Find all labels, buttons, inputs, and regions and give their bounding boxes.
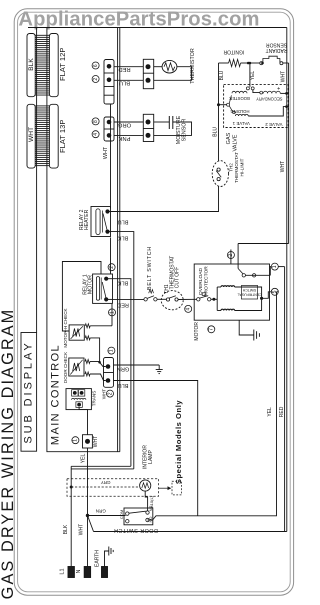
svg-text:BLK: BLK [28, 58, 35, 71]
wire secondary to WHT [285, 92, 288, 95]
svg-text:CUT OFF: CUT OFF [175, 267, 181, 289]
wire trans to WHT pin [79, 407, 87, 434]
svg-text:7: 7 [209, 328, 215, 331]
wire GRN to chassis ground [114, 364, 160, 366]
wire RED [114, 66, 143, 68]
wire BLK relay2 to L1 twin [111, 232, 134, 469]
svg-text:CENTRIFUGAL: CENTRIFUGAL [237, 293, 261, 297]
svg-text:HOLDING: HOLDING [230, 109, 249, 114]
pin number 2 motor [227, 252, 234, 259]
svg-text:MAIN CONTROL: MAIN CONTROL [49, 344, 61, 445]
connector CN2 pins 8,4 [104, 117, 114, 141]
wire WHT to centrifugal common [238, 243, 289, 245]
svg-text:BOOSTER: BOOSTER [229, 96, 249, 101]
svg-text:DOOR SWITCH: DOOR SWITCH [114, 527, 158, 533]
svg-text:TH2: TH2 [229, 163, 234, 172]
wire YEL down to junction [87, 448, 89, 516]
svg-text:RED: RED [279, 406, 285, 417]
wire radiant to WHT bus [283, 62, 289, 64]
main control bus pair [117, 28, 119, 452]
svg-text:6: 6 [93, 64, 99, 67]
svg-text:BLK: BLK [63, 524, 69, 534]
wire BLK down to L1 [70, 466, 72, 566]
svg-text:1: 1 [73, 439, 79, 442]
connector CN1 pins 6,2 [104, 60, 114, 105]
svg-text:YEL: YEL [81, 454, 87, 464]
terminal EARTH [102, 567, 108, 578]
wire right-side bus [286, 28, 288, 532]
relay RY2 heater [91, 207, 111, 237]
indicator DOOR CHECK [69, 358, 84, 376]
svg-text:BLU: BLU [219, 70, 225, 80]
svg-text:BELT SWITCH: BELT SWITCH [147, 246, 153, 290]
overload protector [197, 298, 200, 301]
svg-text:BLU: BLU [118, 218, 129, 224]
connector FLAT 13P ribbon [35, 105, 49, 107]
pin number 2 [92, 76, 99, 83]
svg-text:PROTECTOR: PROTECTOR [204, 266, 210, 297]
terminal N [84, 567, 90, 578]
connector thermistor block [143, 59, 153, 88]
wire thermistor return [154, 67, 192, 81]
svg-text:SECONDARY: SECONDARY [256, 97, 283, 102]
svg-text:Special Models Only: Special Models Only [174, 400, 183, 485]
svg-text:GRY: GRY [101, 480, 111, 485]
wire YEL drop [249, 62, 252, 65]
wire BLU riser to ignitor [218, 63, 220, 161]
node lamp tap [70, 486, 73, 489]
svg-text:WHT: WHT [103, 146, 109, 159]
svg-text:OVERLOAD: OVERLOAD [198, 267, 204, 295]
svg-text:FLAT 13P: FLAT 13P [58, 120, 67, 154]
svg-text:1: 1 [109, 311, 115, 314]
node neutral junction [86, 514, 89, 517]
svg-text:N: N [76, 569, 82, 573]
thermistor [154, 66, 162, 68]
wire TH1 to overload [178, 298, 197, 300]
svg-text:WHT: WHT [93, 436, 99, 447]
svg-text:BLK: BLK [117, 280, 128, 286]
wire YEL down right side [148, 292, 277, 520]
svg-text:NC: NC [148, 506, 153, 512]
wire lamp to door NC [145, 491, 147, 511]
pin number 1 motor [271, 263, 278, 270]
pin number 1 WHT out [72, 437, 79, 444]
svg-text:DOOR CHECK: DOOR CHECK [63, 351, 68, 383]
gas valve pin circles [246, 87, 249, 90]
wire L1 twin horizontals [71, 465, 131, 467]
svg-text:2: 2 [93, 78, 99, 81]
wire door check top [85, 360, 90, 364]
connector moisture sensor block [143, 114, 153, 141]
indicator MOTOR-H CHECK [69, 325, 84, 340]
wire holding to WHT [248, 107, 288, 116]
relay RY1 motor [93, 274, 113, 303]
wire RED down right side [284, 267, 286, 532]
motor sub winding [221, 309, 235, 310]
terminal L1 [68, 567, 74, 578]
switch door [124, 508, 153, 525]
node BLU gas valve junction [217, 103, 220, 106]
connector CN3 [104, 358, 114, 388]
svg-text:BLU: BLU [213, 127, 219, 137]
radiant sensor [260, 62, 263, 65]
svg-text:THERMOSTAT: THERMOSTAT [234, 152, 239, 183]
pin number 4 motor [185, 305, 192, 312]
svg-text:GRN: GRN [117, 365, 129, 371]
wire PNK [114, 134, 143, 136]
wire motor pin5 YEL [262, 292, 272, 299]
wire BLU into gas valve [219, 104, 227, 106]
wire BLU [114, 79, 143, 81]
svg-text:MOTOR-H CHECK: MOTOR-H CHECK [63, 307, 68, 347]
svg-text:GRN: GRN [96, 508, 106, 513]
svg-text:IGNITOR: IGNITOR [223, 48, 244, 54]
wire WHT right side [288, 63, 290, 244]
label RADIANT SENSOR [266, 41, 288, 53]
wire BLU to bottom bus [114, 381, 198, 516]
ground chassis [158, 365, 160, 370]
thermostat TH1 cut-off [161, 291, 183, 310]
wire flat cable to main control [46, 28, 48, 172]
svg-text:WHT: WHT [281, 71, 287, 82]
special models dashed target box [172, 481, 181, 495]
main control board outline [47, 171, 120, 452]
svg-text:COM: COM [119, 510, 124, 519]
wire flat cable to sub display [36, 28, 38, 333]
switch belt [144, 298, 147, 301]
wire GRY dashed [71, 486, 139, 488]
wire to radiant sensor [248, 62, 260, 64]
wire WHT to N terminal [87, 516, 89, 567]
wire relay1 coil to motor-h check [111, 304, 113, 326]
svg-text:PNK: PNK [118, 135, 130, 141]
node overload-motor junction [212, 298, 215, 301]
special models lamp dashed box [67, 479, 159, 497]
centrifugal switch label box [241, 286, 257, 300]
svg-text:1: 1 [272, 265, 278, 268]
pin number 6 [92, 62, 99, 69]
moisture sensor electrodes [154, 121, 170, 123]
centrifugal switch contacts [237, 244, 239, 269]
svg-text:WHT: WHT [280, 161, 286, 172]
wire TH2 to relay 2 BLU [111, 187, 219, 212]
coil SECONDARY [260, 91, 263, 94]
wire motor-h top [85, 324, 90, 328]
wire WHT to relay 2 [110, 104, 112, 209]
wire motor pin2 stub [230, 250, 232, 265]
pin number 7 motor [208, 326, 215, 333]
connector WHT output pin [83, 435, 93, 448]
svg-text:EARTH: EARTH [94, 550, 100, 567]
svg-text:SENSOR: SENSOR [182, 119, 188, 142]
svg-text:NO: NO [148, 517, 153, 523]
wire to motor windings [216, 287, 218, 311]
node ignitor-radiant junction [247, 62, 250, 65]
pin number 1 relay1 [109, 309, 116, 316]
svg-text:L1: L1 [59, 568, 65, 574]
coil HOLDING [233, 111, 236, 114]
wire moisture return [154, 122, 192, 135]
svg-text:2: 2 [228, 254, 234, 257]
svg-text:4: 4 [93, 133, 99, 136]
svg-text:VALVE: VALVE [232, 134, 238, 151]
wire door check bottom [85, 372, 90, 376]
svg-text:VALVE 1: VALVE 1 [232, 121, 250, 126]
wire belt to TH1 [157, 298, 166, 300]
svg-text:SWITCH: SWITCH [242, 288, 256, 292]
svg-text:2: 2 [109, 266, 115, 269]
connector FLAT 12P ribbon [35, 34, 49, 36]
svg-text:YEL: YEL [267, 407, 273, 417]
svg-text:LAMP: LAMP [148, 450, 154, 464]
svg-text:BLU: BLU [119, 80, 130, 86]
svg-text:4: 4 [186, 307, 192, 310]
sub display board outline [21, 333, 37, 452]
svg-text:+: + [277, 85, 280, 91]
transformer TRANS [66, 389, 91, 410]
lamp interior [140, 480, 151, 491]
svg-text:MOTOR: MOTOR [88, 275, 94, 294]
wire relay1 coil left path [62, 262, 101, 332]
wire GRN to door COM [88, 515, 126, 517]
pin number 5 motor [271, 288, 278, 295]
ignitor [219, 62, 229, 64]
motor M1 enclosure [194, 264, 269, 320]
svg-text:WHT: WHT [78, 524, 84, 535]
ground earth [105, 551, 109, 567]
svg-text:GAS DRYER WIRING DIAGRAM: GAS DRYER WIRING DIAGRAM [0, 308, 17, 600]
svg-text:SENSOR: SENSOR [266, 41, 288, 47]
svg-text:YEL: YEL [250, 71, 256, 81]
wire RED relay1 to belt switch [113, 298, 144, 300]
thermostat TH2 hi-limit [212, 161, 228, 187]
svg-text:HEATER: HEATER [84, 209, 90, 230]
svg-text:RED: RED [117, 302, 129, 308]
svg-text:TRANS: TRANS [92, 391, 97, 407]
svg-text:GAS: GAS [226, 132, 232, 144]
wire winding join [235, 287, 262, 311]
ground motor frame [239, 320, 254, 335]
svg-text:1: 1 [109, 349, 115, 352]
svg-text:8: 8 [93, 120, 99, 123]
arrow special models [159, 487, 168, 489]
motor main winding [221, 286, 235, 287]
svg-text:BLK: BLK [117, 235, 128, 241]
svg-text:RED: RED [118, 66, 130, 72]
svg-text:2: 2 [107, 392, 113, 395]
pin number 2 relay1 [108, 264, 115, 271]
svg-text:WHT: WHT [28, 127, 35, 142]
coil BOOSTER [232, 91, 247, 93]
svg-text:MOTOR: MOTOR [194, 322, 200, 341]
svg-text:ORG: ORG [117, 121, 131, 127]
svg-text:BLU: BLU [118, 382, 129, 388]
wire relay drive [110, 238, 112, 274]
wire bottom neutral bus [94, 531, 287, 533]
wire motor-h bottom [85, 336, 90, 340]
wire BLK relay1 to L1 twin [113, 279, 131, 467]
pin number 1 CN3 [108, 347, 115, 354]
svg-text:HI-LIMIT: HI-LIMIT [240, 158, 245, 176]
wire motor pin1 RED [269, 267, 271, 276]
svg-text:VALVE 2: VALVE 2 [265, 122, 283, 127]
wire top bus [28, 27, 287, 29]
pin number 4 [92, 131, 99, 138]
svg-text:SUB DISPLAY: SUB DISPLAY [23, 340, 35, 443]
svg-text:THERMISTOR: THERMISTOR [190, 48, 196, 84]
svg-text:WHT: WHT [101, 389, 106, 400]
svg-text:FLAT 12P: FLAT 12P [58, 48, 67, 81]
gas valve dashed enclosure [224, 85, 289, 128]
pin number 8 [92, 118, 99, 125]
wire ORG [114, 121, 143, 123]
pin number 2 CN3 [107, 390, 114, 397]
